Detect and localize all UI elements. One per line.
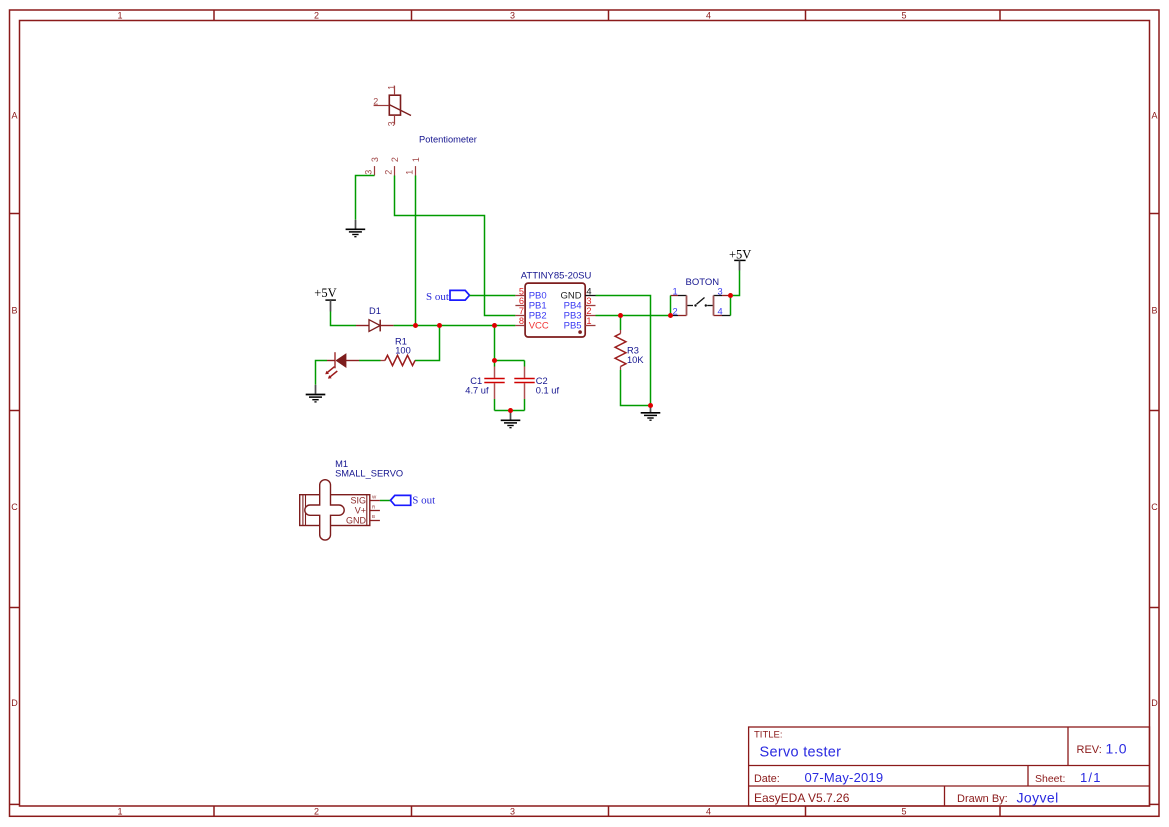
svg-text:1.0: 1.0 (1106, 741, 1128, 757)
svg-text:07-May-2019: 07-May-2019 (805, 770, 884, 785)
junction dot button pin3 (728, 293, 733, 298)
junction dot rail/R1 (437, 323, 442, 328)
pin 6 PB1 (515, 305, 525, 307)
svg-text:1: 1 (117, 11, 122, 21)
svg-text:1: 1 (405, 170, 415, 175)
svg-text:3: 3 (510, 807, 515, 817)
svg-text:2: 2 (384, 170, 394, 175)
junction dot PB3/R3 (618, 313, 623, 318)
svg-text:3: 3 (510, 11, 515, 21)
svg-text:2: 2 (314, 807, 319, 817)
svg-text:2: 2 (390, 157, 400, 162)
wire +5V to D1 (331, 312, 357, 326)
wire GND pin4 to ground (596, 296, 651, 406)
svg-text:2: 2 (673, 306, 678, 316)
pin 8 VCC (515, 325, 525, 327)
pin 1 (671, 295, 679, 297)
svg-text:Potentiometer: Potentiometer (419, 135, 477, 145)
svg-text:SIG: SIG (350, 496, 366, 506)
connector CN1 pin 2 (384, 157, 401, 175)
wire +5V to button pin3 (731, 271, 740, 296)
ground (LED) (306, 385, 326, 402)
svg-text:C: C (11, 502, 18, 512)
svg-text:GND: GND (346, 515, 367, 525)
pin 2 (678, 315, 687, 317)
pin 4 GND (585, 295, 595, 297)
wire S out to PB0 (470, 295, 516, 297)
svg-text:0.1 uf: 0.1 uf (536, 386, 560, 396)
pin 5 PB0 (515, 295, 525, 297)
svg-text:2: 2 (586, 306, 591, 316)
svg-text:B: B (1151, 306, 1157, 316)
power flag +5V (left) (314, 286, 336, 311)
svg-text:4.7 uf: 4.7 uf (465, 386, 489, 396)
wire R1 to LED (359, 360, 381, 362)
wire LED to ground (316, 361, 328, 385)
svg-text:+5V: +5V (729, 247, 751, 261)
svg-text:3: 3 (364, 170, 374, 175)
svg-text:4: 4 (586, 286, 591, 296)
pin V+ (370, 510, 380, 512)
pin 1 PB5 (585, 325, 595, 327)
svg-text:10K: 10K (627, 355, 644, 365)
svg-text:TITLE:: TITLE: (754, 730, 783, 741)
svg-text:Joyvel: Joyvel (1017, 790, 1059, 806)
IC U1 ATTINY85-20SU (515, 271, 595, 337)
net flag S out (upper) (426, 290, 470, 303)
svg-text:A: A (1151, 111, 1157, 121)
pin 7 PB2 (515, 315, 525, 317)
svg-text:D1: D1 (369, 306, 381, 316)
svg-text:D: D (1151, 698, 1158, 708)
wire C1 top to C2 top (495, 360, 525, 362)
power flag +5V (right) (729, 247, 751, 270)
svg-text:V+: V+ (355, 506, 366, 516)
potentiometer R2 (373, 85, 411, 127)
svg-text:2: 2 (314, 11, 319, 21)
wire pot pin3 to ground (356, 176, 375, 220)
pin SIG (370, 500, 380, 502)
svg-text:S out: S out (426, 291, 449, 303)
svg-text:D: D (11, 698, 18, 708)
title block (749, 727, 1150, 806)
ground (C1/C2) (501, 411, 521, 428)
svg-text:Date:: Date: (754, 773, 780, 785)
svg-text:3: 3 (370, 157, 380, 162)
svg-text:3: 3 (387, 121, 397, 126)
servo M1 (300, 459, 403, 540)
svg-text:C1: C1 (470, 376, 482, 386)
svg-text:1: 1 (117, 807, 122, 817)
capacitor C2 0.1uf (514, 361, 559, 400)
wire +5V rail to VCC (394, 325, 516, 327)
svg-text:4: 4 (706, 807, 711, 817)
wire servo SIG to S out (380, 500, 391, 502)
svg-text:EasyEDA V5.7.26: EasyEDA V5.7.26 (754, 791, 850, 805)
wire rail to R1 (415, 326, 440, 361)
servo horn cross (305, 480, 344, 540)
pin 4 (714, 315, 723, 317)
svg-text:S out: S out (412, 494, 435, 506)
ground (pot) (346, 220, 366, 237)
svg-text:REV:: REV: (1077, 744, 1102, 756)
connector CN1 pin 1 (405, 157, 422, 175)
svg-text:5: 5 (901, 11, 906, 21)
pushbutton S1 BOTON (671, 277, 731, 317)
pin 3 PB4 (585, 305, 595, 307)
capacitor C1 4.7uf (465, 361, 504, 400)
svg-text:1/1: 1/1 (1080, 770, 1102, 785)
junction dot button pin2 (668, 313, 673, 318)
svg-text:1: 1 (387, 85, 397, 90)
svg-text:4: 4 (706, 11, 711, 21)
svg-text:6: 6 (519, 296, 524, 306)
svg-text:1: 1 (673, 287, 678, 297)
svg-text:5: 5 (519, 286, 524, 296)
svg-text:Servo tester: Servo tester (760, 745, 842, 761)
net flag S out (servo) (391, 494, 436, 506)
svg-text:B: B (372, 514, 375, 519)
wire pot pin1 to +5V rail (415, 176, 417, 326)
connector CN1 pin 3 (364, 157, 381, 175)
ground (R3/GND) (641, 406, 661, 421)
wire C1 bottom to C2 bottom (495, 399, 525, 411)
switch body (671, 296, 731, 316)
junction dot rail/pot1 (413, 323, 418, 328)
svg-text:5: 5 (901, 807, 906, 817)
junction dot ground node (648, 403, 653, 408)
svg-text:100: 100 (395, 346, 411, 356)
svg-text:3: 3 (586, 296, 591, 306)
svg-text:8: 8 (519, 316, 524, 326)
pin 2 PB3 (585, 315, 595, 317)
svg-text:SMALL_SERVO: SMALL_SERVO (335, 468, 403, 478)
svg-text:2: 2 (373, 97, 378, 107)
LED1 (325, 352, 359, 378)
resistor R1 100 (381, 337, 416, 366)
svg-text:Drawn By:: Drawn By: (957, 793, 1008, 805)
svg-text:PB5: PB5 (564, 321, 582, 332)
diode D1 (356, 306, 394, 332)
pin 3 (722, 295, 731, 297)
svg-text:7: 7 (519, 306, 524, 316)
svg-text:BOTON: BOTON (686, 277, 720, 288)
svg-text:+5V: +5V (314, 286, 336, 300)
internal wires (670, 296, 672, 316)
junction dot C1 top (492, 358, 497, 363)
svg-text:Sheet:: Sheet: (1035, 773, 1065, 785)
svg-text:VCC: VCC (529, 321, 549, 332)
wire R3 to ground (621, 370, 651, 406)
pin GND (370, 520, 380, 522)
resistor R3 10K (615, 316, 644, 371)
wire PB3 to button pin2 (596, 315, 671, 317)
svg-text:A: A (11, 111, 17, 121)
svg-text:C2: C2 (536, 376, 548, 386)
svg-text:1: 1 (586, 316, 591, 326)
wire rail to C1/C2 (494, 326, 496, 361)
junction dot cap ground (508, 408, 513, 413)
svg-text:1: 1 (411, 157, 421, 162)
svg-text:B: B (11, 306, 17, 316)
svg-text:4: 4 (718, 306, 723, 316)
junction dot rail/C1C2 (492, 323, 497, 328)
wire pot pin2 to PB2 (395, 176, 516, 316)
svg-text:C: C (1151, 502, 1158, 512)
svg-text:ATTINY85-20SU: ATTINY85-20SU (521, 271, 592, 282)
